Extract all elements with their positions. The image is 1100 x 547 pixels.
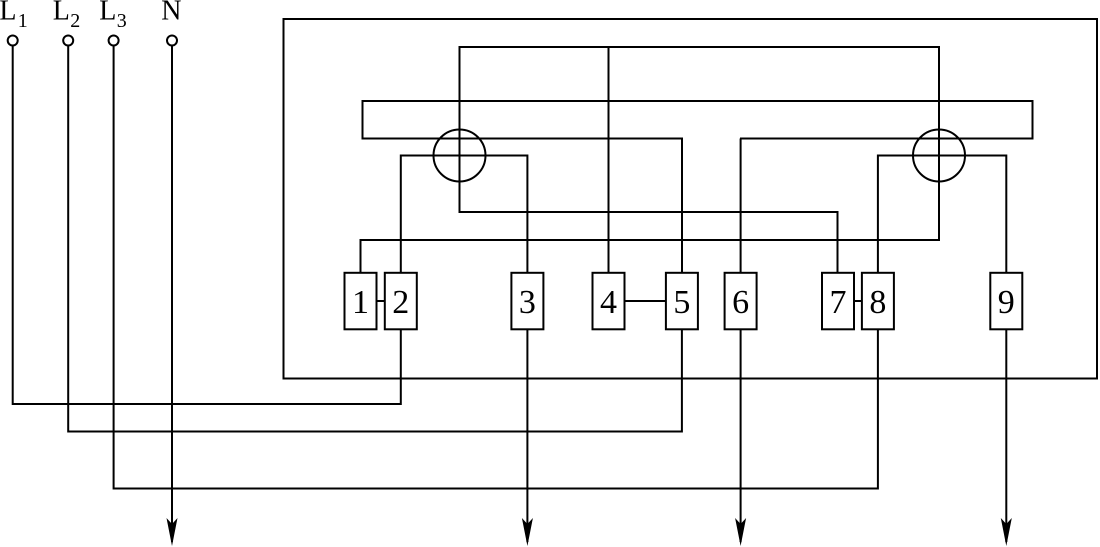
svg-text:7: 7	[830, 284, 847, 321]
svg-text:2: 2	[70, 10, 80, 32]
svg-text:4: 4	[600, 284, 617, 321]
svg-text:3: 3	[117, 10, 127, 32]
svg-text:5: 5	[673, 284, 690, 321]
svg-text:1: 1	[352, 284, 369, 321]
svg-text:2: 2	[392, 284, 409, 321]
svg-text:9: 9	[998, 284, 1015, 321]
svg-text:L: L	[53, 0, 70, 27]
svg-text:6: 6	[732, 284, 749, 321]
svg-text:1: 1	[18, 10, 28, 32]
svg-text:L: L	[99, 0, 116, 27]
svg-text:N: N	[161, 0, 181, 27]
svg-text:3: 3	[519, 284, 536, 321]
svg-text:8: 8	[869, 284, 886, 321]
svg-text:L: L	[0, 0, 16, 27]
